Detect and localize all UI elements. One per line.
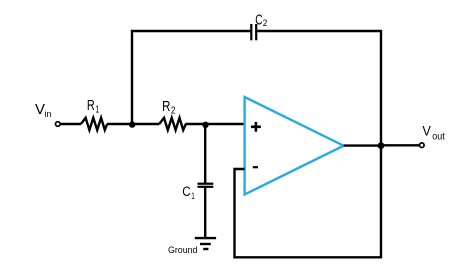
svg-text:C: C — [182, 184, 191, 199]
op-amp U1 — [245, 97, 344, 195]
op-amp plus input marker — [251, 122, 261, 132]
svg-text:1: 1 — [191, 191, 194, 201]
svg-text:R: R — [162, 99, 170, 115]
wire node B down to C1 — [204, 125, 206, 183]
wire op-amp output to output node — [344, 144, 381, 146]
wire output node to Vout terminal — [381, 144, 419, 146]
svg-text:in: in — [45, 109, 52, 120]
wire R2 to op-amp noninverting input through node B — [186, 123, 245, 125]
svg-text:R: R — [87, 98, 95, 114]
resistor R2 — [159, 118, 186, 130]
svg-text:V: V — [422, 124, 431, 139]
svg-text:out: out — [432, 132, 445, 143]
wire R1 to R2 through node A — [107, 123, 160, 125]
ground — [195, 238, 216, 249]
wire inverting input feedback: left and down to bottom rail — [235, 169, 382, 257]
wire C1 to ground — [204, 188, 206, 237]
svg-text:Ground: Ground — [168, 245, 197, 256]
svg-text:1: 1 — [95, 104, 99, 115]
terminal Vout — [420, 143, 425, 148]
node B junction dot — [202, 122, 208, 128]
node A junction dot — [129, 121, 135, 127]
capacitor C1 — [198, 184, 214, 187]
resistor R1 — [81, 118, 107, 130]
terminal Vin — [56, 122, 61, 127]
svg-text:C: C — [255, 13, 262, 29]
node Vout junction dot — [378, 142, 385, 149]
svg-text:2: 2 — [263, 18, 268, 29]
svg-text:2: 2 — [171, 106, 176, 117]
wire right vertical rail — [380, 30, 382, 259]
capacitor C2 — [251, 24, 256, 40]
op-amp minus input marker — [253, 166, 258, 168]
wire node A up and along top rail to C2 — [132, 31, 250, 125]
wire C2 to right rail — [257, 30, 381, 32]
wire Vin terminal to R1 — [61, 123, 81, 125]
